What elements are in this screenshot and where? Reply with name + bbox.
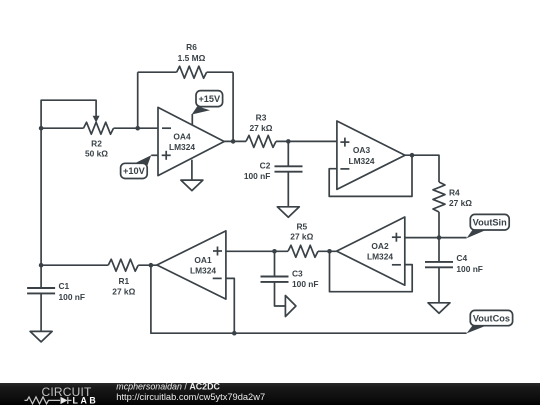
svg-text:LAB: LAB: [73, 395, 99, 405]
svg-text:+15V: +15V: [198, 94, 221, 104]
svg-text:R6: R6: [186, 42, 197, 52]
svg-text:R2: R2: [91, 138, 102, 148]
svg-text:100 nF: 100 nF: [59, 292, 86, 302]
svg-text:LM324: LM324: [169, 142, 195, 152]
svg-text:50 kΩ: 50 kΩ: [85, 149, 108, 159]
svg-text:+10V: +10V: [123, 166, 146, 176]
svg-text:27 kΩ: 27 kΩ: [290, 231, 313, 241]
svg-text:1.5 MΩ: 1.5 MΩ: [178, 53, 206, 63]
svg-text:VoutCos: VoutCos: [473, 313, 510, 323]
svg-text:R4: R4: [449, 187, 460, 197]
svg-text:R1: R1: [118, 276, 129, 286]
svg-text:LM324: LM324: [190, 266, 216, 276]
svg-text:LM324: LM324: [348, 156, 374, 166]
svg-text:OA4: OA4: [173, 131, 191, 141]
svg-text:LM324: LM324: [367, 252, 393, 262]
svg-text:100 nF: 100 nF: [292, 279, 319, 289]
svg-text:VoutSin: VoutSin: [473, 218, 507, 228]
svg-text:27 kΩ: 27 kΩ: [112, 287, 135, 297]
svg-text:27 kΩ: 27 kΩ: [449, 198, 472, 208]
svg-text:C2: C2: [260, 160, 271, 170]
svg-text:mcphersonaidan / AC2DC: mcphersonaidan / AC2DC: [116, 382, 220, 392]
svg-text:http://circuitlab.com/cw5ytx79: http://circuitlab.com/cw5ytx79da2w7: [116, 392, 265, 402]
svg-text:R5: R5: [296, 222, 307, 232]
svg-text:C3: C3: [292, 269, 303, 279]
svg-text:OA2: OA2: [371, 241, 389, 251]
svg-text:C4: C4: [456, 253, 467, 263]
svg-text:C1: C1: [59, 281, 70, 291]
svg-text:OA3: OA3: [353, 145, 371, 155]
svg-text:OA1: OA1: [194, 255, 212, 265]
svg-text:27 kΩ: 27 kΩ: [249, 123, 272, 133]
svg-text:100 nF: 100 nF: [456, 264, 483, 274]
svg-text:R3: R3: [256, 113, 267, 123]
svg-text:100 nF: 100 nF: [244, 171, 271, 181]
